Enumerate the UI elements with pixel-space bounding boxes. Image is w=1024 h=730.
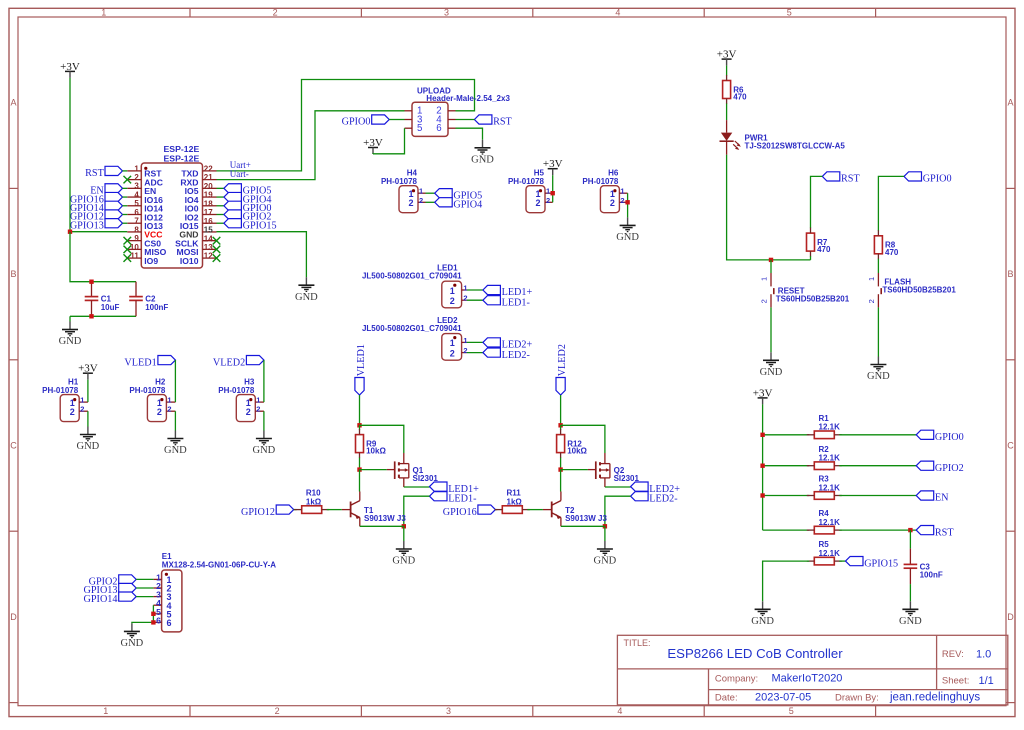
svg-text:MakerIoT2020: MakerIoT2020 [772,673,843,685]
resistor R2 [807,445,842,470]
svg-text:GPIO16: GPIO16 [443,507,477,518]
svg-text:2: 2 [463,346,467,355]
svg-text:1: 1 [463,336,467,345]
svg-text:IO9: IO9 [144,256,158,266]
wire rail to R3 [763,495,810,497]
junction rail R2 [760,464,764,468]
svg-text:16: 16 [204,217,213,226]
svg-text:R10: R10 [306,489,321,498]
IC ESP-12E module [127,144,216,268]
wire TXD to upload pin2 [217,80,475,171]
connector H3 PH-01078 [218,377,264,421]
svg-text:1: 1 [463,284,467,293]
wire rail to R1 [763,434,810,436]
svg-text:15: 15 [204,226,213,235]
wire emitter to junction [561,525,605,527]
wire VCC pin 8 [70,231,127,233]
wire [217,205,224,207]
svg-text:D: D [10,612,17,622]
svg-text:PH-01078: PH-01078 [42,386,79,395]
net flag GPIO5 (ESP right) [224,184,272,197]
net flag RST (reset) [822,172,860,185]
svg-text:LED1-: LED1- [448,493,477,504]
resistor R11 [495,489,530,514]
svg-text:6: 6 [156,615,161,625]
wire R4 to RST flag [839,529,916,531]
transistor Q1 SI2301 P-MOSFET [387,453,439,487]
no-connect pin 11 [124,254,132,262]
resistor R6 [723,75,747,104]
svg-text:1: 1 [134,164,139,173]
junction C1 bottom [89,314,93,318]
svg-text:TJ-S2012SW8TGLCCW-A5: TJ-S2012SW8TGLCCW-A5 [745,142,846,151]
svg-text:13: 13 [204,243,213,252]
junction VLED rail [558,423,562,427]
wire [456,119,475,121]
net flag GPIO13 (ESP pin 7) [70,219,123,232]
svg-text:PH-01078: PH-01078 [381,177,418,186]
wire junction to GND [604,526,606,541]
net flag GPIO4 (H4) [435,198,483,211]
+3V supply (H5) [543,158,563,175]
svg-text:2023-07-05: 2023-07-05 [755,692,811,704]
svg-text:5: 5 [417,123,422,134]
wire R5 to GPIO15 flag [839,560,845,562]
junction VLED rail [357,423,361,427]
junction +3V/VCC [68,230,72,234]
wire down to C1 C2 rail [70,232,136,282]
resistor R8 [874,230,898,259]
svg-text:1: 1 [450,338,455,348]
svg-text:12.1K: 12.1K [819,518,841,527]
svg-text:ESP8266 LED CoB Controller: ESP8266 LED CoB Controller [667,646,843,661]
wire resistor to gate junction [359,458,361,470]
wire RESET to GND [770,307,772,352]
wire [294,509,297,511]
capacitor C2 [129,282,168,317]
wire [495,509,497,511]
svg-text:S9013W J3: S9013W J3 [565,514,607,523]
svg-text:RST: RST [841,174,860,185]
svg-text:3: 3 [444,7,449,17]
connector LED1 JL500-50802G01_C709041 [362,264,468,308]
ground (ESP pin 15) [295,277,318,303]
wire [136,578,153,580]
svg-text:2: 2 [867,299,876,303]
svg-text:3: 3 [134,182,139,191]
wire LED to bottom rail [727,155,811,260]
wire [467,341,483,343]
svg-text:GND: GND [59,336,82,347]
junction emitter/GND [402,524,406,528]
+3V supply (H1) [78,363,98,380]
connector E1 MX12B-2.54-GN01-06P-CU-Y-A [153,552,276,632]
svg-text:1: 1 [450,286,455,296]
wire [217,214,224,216]
svg-text:LED1-: LED1- [502,297,531,308]
ground (H6) [616,217,639,243]
net flag EN (ESP pin 3) [90,184,122,197]
svg-text:GND: GND [594,556,617,567]
transistor Q2 SI2301 P-MOSFET [588,453,640,487]
svg-text:GND: GND [295,292,318,303]
svg-text:18: 18 [204,199,213,208]
wire rail to R4 [763,529,810,531]
resistor R3 [807,475,842,500]
svg-text:2: 2 [450,296,455,306]
junction rail R1 [760,433,764,437]
net flag LED2+ (driver) [631,482,681,495]
svg-text:6: 6 [167,618,172,628]
svg-text:5: 5 [787,7,792,17]
pushbutton FLASH TS60HD50B25B201 [867,273,956,307]
wire VLED2 to H3 pin1 [263,360,265,402]
resistor R12 [557,429,588,458]
wire +3V to R6 [726,66,728,76]
svg-text:ESP-12E: ESP-12E [164,144,200,154]
svg-text:2: 2 [157,407,162,417]
wire FLASH to GND [877,307,879,356]
no-connect pin 14 [213,237,221,245]
svg-text:2: 2 [273,7,278,17]
svg-text:R11: R11 [507,489,522,498]
svg-text:C: C [10,441,17,451]
junction E1 pin6 [151,620,155,624]
svg-text:1: 1 [167,396,171,405]
transistor T2 S9013W NPN [543,492,608,527]
svg-text:1: 1 [867,277,876,281]
wire [389,119,404,121]
ground (below C1) [59,322,82,348]
svg-text:14: 14 [204,234,213,243]
svg-text:Uart-: Uart- [230,169,249,179]
net flag GPIO14 (ESP pin 5) [70,201,123,214]
svg-text:PH-01078: PH-01078 [218,386,255,395]
svg-text:12.1K: 12.1K [819,483,841,492]
wire VLED vertical [359,395,361,425]
junction rail R3 [760,493,764,497]
svg-text:GPIO0: GPIO0 [935,432,964,443]
svg-text:R5: R5 [819,540,830,549]
svg-text:GPIO12: GPIO12 [241,507,275,518]
svg-text:2: 2 [134,173,139,182]
svg-text:2: 2 [546,196,550,205]
net flag GPIO14 (E1) [84,592,137,605]
svg-text:JL500-50802G01_C709041: JL500-50802G01_C709041 [362,271,462,280]
svg-text:2: 2 [70,407,75,417]
svg-text:GND: GND [253,445,276,456]
svg-text:100nF: 100nF [145,303,168,312]
net flag VLED1 (H2) [124,356,175,369]
ground (H3) [253,431,276,457]
wire [426,192,435,194]
svg-text:470: 470 [885,248,899,257]
svg-text:GPIO15: GPIO15 [864,558,898,569]
ground (H2) [164,431,187,457]
svg-text:GPIO14: GPIO14 [84,594,118,605]
junction E1 pin5 [151,612,155,616]
ground (H1) [77,427,100,453]
wire [136,596,153,598]
junction RESET top [769,258,773,262]
wire [123,196,128,198]
wire RST flag to R7 [811,176,823,228]
resistor R7 [807,228,831,257]
svg-text:12.1K: 12.1K [819,549,841,558]
svg-text:12.1K: 12.1K [819,454,841,463]
svg-text:7: 7 [134,217,139,226]
svg-text:GPIO0: GPIO0 [923,174,952,185]
ground (FLASH) [867,357,890,383]
svg-text:100nF: 100nF [920,571,943,580]
net flag GPIO15 (ESP right) [224,219,277,232]
svg-text:PH-01078: PH-01078 [508,177,545,186]
wire junction to collector [359,470,361,492]
net flag VLED1 (vertical) [355,344,367,395]
svg-text:JL500-50802G01_C709041: JL500-50802G01_C709041 [362,324,462,333]
wire R1 to flag [839,434,916,436]
svg-text:D: D [1007,612,1014,622]
svg-text:12.1K: 12.1K [819,423,841,432]
svg-text:17: 17 [204,208,213,217]
svg-text:470: 470 [733,93,747,102]
wire [123,214,128,216]
net flag GPIO0 (ESP right) [224,201,272,214]
svg-text:TS60HD50B25B201: TS60HD50B25B201 [882,286,956,295]
wire R6 to LED [726,104,728,121]
ground (RESET) [760,352,783,378]
svg-text:1: 1 [80,396,84,405]
svg-text:1: 1 [419,187,423,196]
wire H1 pin2 to GND [87,411,89,426]
resistor R4 [807,509,842,534]
connector UPLOAD header 2x3 [405,87,511,137]
net flag LED1+ (driver) [430,482,480,495]
svg-text:S9013W J3: S9013W J3 [364,514,406,523]
net flag GPIO12 (ESP pin 6) [70,210,123,223]
net flag GPIO2 (R2) [916,461,964,474]
wire source to LED+ flag [404,486,430,488]
no-connect pin 13 [213,246,221,254]
svg-text:GPIO0: GPIO0 [342,117,371,128]
svg-text:2: 2 [536,198,541,208]
wire [217,196,224,198]
svg-text:PH-01078: PH-01078 [129,386,166,395]
pushbutton RESET TS60HD50B25B201 [760,273,850,307]
svg-text:6: 6 [436,123,441,134]
svg-text:REV:: REV: [942,649,964,660]
+3V supply (pullups) [753,387,773,404]
net flag GPIO13 (E1) [84,583,137,596]
+3V supply (top left) [60,61,80,78]
wire [217,187,224,189]
+3V supply (PWR) [717,49,737,66]
svg-text:2: 2 [620,196,624,205]
wire gate junction to gate [561,469,588,471]
wire LED- to GND junction [605,496,631,526]
wire H2 pin2 to GND [174,411,176,430]
svg-text:1: 1 [546,187,550,196]
net flag VLED2 (vertical) [556,344,568,395]
junction H5 pin1 [551,191,555,195]
svg-text:1: 1 [256,396,260,405]
net flag RST (upload pin4) [474,115,512,128]
connector H2 PH-01078 [129,377,175,421]
wire +3V to VCC rail [69,78,71,232]
net flag GPIO2 (E1) [89,575,137,588]
svg-text:Sheet:: Sheet: [942,676,969,687]
svg-text:10kΩ: 10kΩ [567,447,587,456]
svg-text:GPIO2: GPIO2 [935,463,964,474]
svg-text:3: 3 [446,706,451,716]
svg-text:5: 5 [789,706,794,716]
junction H6 pin2 [625,200,629,204]
svg-text:9: 9 [134,234,139,243]
svg-text:2: 2 [167,405,171,414]
net flag LED2- (driver) [631,492,679,505]
net flag VLED2 (H3) [213,356,264,369]
wire LED- to GND junction [404,496,430,526]
svg-text:VLED1: VLED1 [356,344,367,376]
wire [426,201,435,203]
svg-text:GPIO15: GPIO15 [243,220,277,231]
wire [123,187,128,189]
svg-text:2: 2 [246,407,251,417]
wire [467,299,483,301]
svg-text:EN: EN [935,493,949,504]
svg-text:10uF: 10uF [101,303,120,312]
junction C1 top [89,280,93,284]
svg-text:19: 19 [204,191,213,200]
svg-text:22: 22 [204,165,213,174]
net flag RST (ESP pin 1) [85,166,122,179]
svg-text:MX128-2.54-GN01-06P-CU-Y-A: MX128-2.54-GN01-06P-CU-Y-A [162,561,276,570]
wire emitter to junction [360,525,404,527]
wire rail to MOSFET drain [360,425,404,453]
net flag GPIO2 (ESP right) [224,210,272,223]
connector LED2 JL500-50802G01_C709041 [362,316,468,360]
net flag EN (R3) [916,491,949,504]
svg-text:R2: R2 [819,445,830,454]
svg-text:ESP-12E: ESP-12E [164,154,200,164]
ground (T1) [392,541,415,567]
wire [123,205,128,207]
net flag GPIO5 (H4) [435,189,483,202]
svg-text:12: 12 [204,252,213,261]
net flag LED1- (LED1) [483,296,531,309]
ground (C3) [899,601,922,627]
net flag LED2- (LED2) [483,348,531,361]
wire R5 to GND [763,561,810,601]
resistor R1 [807,414,842,439]
svg-text:2: 2 [610,198,615,208]
svg-text:R4: R4 [819,509,830,518]
transistor T1 S9013W NPN [342,492,407,527]
svg-text:11: 11 [130,252,139,261]
wire +3V to H5 [552,175,554,202]
wire to GND below caps [69,316,71,321]
wire [217,222,224,224]
svg-text:GPIO13: GPIO13 [70,220,104,231]
connector H5 PH-01078 [508,169,553,213]
svg-text:1: 1 [103,706,108,716]
net flag LED1- (driver) [430,492,478,505]
svg-text:RST: RST [493,117,512,128]
wire [136,587,153,589]
wire R2 to flag [839,465,916,467]
wire rail to MOSFET drain [561,425,605,453]
svg-text:GND: GND [392,556,415,567]
wire junction to GND [403,526,405,541]
LED PWR1 TJ-S2012SW8TGLCCW-A5 [720,120,846,155]
svg-text:5: 5 [134,199,139,208]
svg-text:6: 6 [134,208,139,217]
svg-text:1kΩ: 1kΩ [507,497,523,506]
wire +3V to upload pin5 [373,128,405,154]
wire H6 pins to GND [627,193,629,217]
svg-text:R3: R3 [819,475,830,484]
svg-text:E1: E1 [162,552,172,561]
svg-text:GND: GND [760,367,783,378]
junction gate/collector [558,467,562,471]
resistor R10 [294,489,329,514]
wire E1 pins 4-6 common [132,605,154,623]
net flag GPIO0 (upload pin3) [342,115,390,128]
net flag GPIO16 (ESP pin 4) [70,192,123,205]
svg-text:20: 20 [204,182,213,191]
wire R to base [327,509,342,511]
svg-text:1.0: 1.0 [976,649,991,661]
svg-text:GND: GND [121,638,144,649]
svg-text:2: 2 [256,405,260,414]
net flag GPIO15 (R5) [846,557,899,570]
svg-text:A: A [1007,98,1013,108]
svg-text:GND: GND [751,616,774,627]
svg-text:RST: RST [85,168,104,179]
svg-text:2: 2 [760,299,769,303]
svg-text:TS60HD50B25B201: TS60HD50B25B201 [776,295,850,304]
svg-text:2: 2 [450,348,455,358]
svg-text:LED2-: LED2- [502,350,531,361]
svg-text:470: 470 [817,245,831,254]
svg-text:4: 4 [134,190,139,199]
title block [617,635,1007,705]
svg-text:4: 4 [615,7,620,17]
wire junction to C3 [909,530,911,549]
svg-text:Company:: Company: [715,674,758,685]
no-connect pin 12 [213,254,221,262]
wire H3 pin2 to GND [263,411,265,430]
wire +3V rail down [762,404,764,530]
wire rail to resistor top [359,425,361,430]
svg-text:2: 2 [275,706,280,716]
wire +3V to H1 pin1 [87,380,89,402]
svg-text:C: C [1007,441,1014,451]
connector H4 PH-01078 [381,169,426,213]
net flag GPIO0 (R1) [916,430,964,443]
svg-text:1: 1 [101,7,106,17]
no-connect pin 10 [124,246,132,254]
svg-text:VLED2: VLED2 [213,357,245,368]
wire source to LED+ flag [605,486,631,488]
net flag LED2+ (LED2) [483,338,533,351]
no-connect pin 9 [124,237,132,245]
resistor R9 [356,429,387,458]
wire R to base [527,509,543,511]
capacitor C3 [904,549,943,585]
svg-text:Header-Male-2.54_2x3: Header-Male-2.54_2x3 [426,94,510,103]
wire junction to RESET [770,260,772,273]
